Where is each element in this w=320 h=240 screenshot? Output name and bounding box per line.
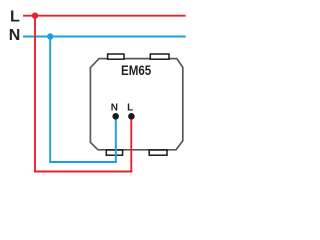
- junction dot on L bus: [32, 13, 38, 19]
- wire L bus horizontal: [23, 15, 186, 17]
- svg-text:L: L: [127, 103, 133, 114]
- wire N bottom horizontal: [49, 161, 117, 163]
- top mounting tab 2: [150, 54, 169, 59]
- wire L bottom horizontal: [34, 171, 132, 173]
- terminal N dot: [112, 113, 119, 120]
- device box EM65 outline: [90, 59, 182, 150]
- wire L drop vertical: [34, 16, 36, 173]
- wire N riser to terminal: [115, 116, 117, 163]
- bottom mounting tab 2: [149, 150, 167, 155]
- bottom mounting tab 1: [106, 150, 122, 155]
- junction dot on N bus: [47, 33, 53, 39]
- svg-text:N: N: [111, 103, 118, 114]
- svg-text:N: N: [9, 27, 21, 44]
- terminal L dot: [128, 113, 135, 120]
- top mounting tab 1: [108, 54, 124, 59]
- wire L riser to terminal: [130, 116, 132, 172]
- wire N drop vertical: [49, 37, 51, 163]
- svg-text:EM65: EM65: [121, 63, 151, 78]
- svg-text:L: L: [10, 9, 20, 26]
- wire N bus horizontal: [23, 36, 186, 38]
